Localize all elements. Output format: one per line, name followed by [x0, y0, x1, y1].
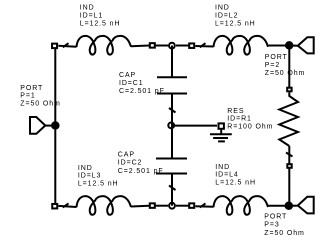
label P3 (PORT, P=3, Z=50 Ohm): [264, 214, 304, 237]
wire: top row from L1 pin2 to node A: [156, 45, 169, 47]
port P2: [292, 37, 314, 53]
node at port P1: [52, 122, 58, 128]
svg-text:Z=50 Ohm: Z=50 Ohm: [264, 230, 304, 237]
svg-text:CAP: CAP: [118, 151, 135, 158]
wire: node C to ground pin: [172, 125, 217, 127]
svg-text:ID=C2: ID=C2: [118, 160, 143, 167]
wire: R1 pin2 down to node N3 with jog: [286, 146, 293, 206]
label P2 (PORT, P=2, Z=50 Ohm): [265, 54, 305, 77]
svg-text:ID=C1: ID=C1: [119, 80, 144, 87]
wire: bottom row from L4 coil to node N3: [268, 205, 286, 207]
svg-text:L=12.5 nH: L=12.5 nH: [80, 20, 121, 27]
svg-text:L=12.5 nH: L=12.5 nH: [215, 20, 256, 27]
svg-text:PORT: PORT: [265, 54, 288, 61]
wire: bottom row from L3 pin2 to node B: [156, 205, 169, 207]
node A (top middle junction): [169, 43, 175, 49]
svg-text:P=3: P=3: [264, 222, 279, 229]
svg-text:CAP: CAP: [119, 72, 136, 79]
label L1 (IND, ID=L1, L=12.5 nH): [80, 5, 121, 28]
wire: node C down to C2 top plate: [171, 126, 173, 159]
svg-text:IND: IND: [78, 165, 93, 172]
svg-text:P=1: P=1: [20, 93, 35, 100]
inductor L4: [189, 196, 268, 215]
wire: C2 bottom plate down to node B with jog: [169, 174, 176, 206]
wire: top row from node A to L2 pin1: [176, 45, 189, 47]
wire: left vertical rail from L1 pin1 down to L3 pin1: [54, 46, 56, 207]
svg-text:C=2.501 pF: C=2.501 pF: [119, 88, 165, 95]
port P1: [30, 117, 53, 134]
svg-text:Z=50 Ohm: Z=50 Ohm: [20, 100, 60, 107]
label L4 (IND, ID=L4, L=12.5 nH): [215, 164, 256, 187]
ground symbol: [210, 123, 232, 141]
inductor L3: [52, 196, 155, 215]
label C2 (CAP, ID=C2, C=2.501 pF): [118, 151, 164, 174]
svg-text:ID=L3: ID=L3: [78, 173, 101, 180]
label L2 (IND, ID=L2, L=12.5 nH): [215, 5, 256, 28]
wire: top row from L2 coil to node N2: [269, 45, 286, 47]
svg-text:R=100 Ohm: R=100 Ohm: [227, 123, 273, 130]
svg-text:IND: IND: [80, 5, 95, 12]
wire: right vertical from node N2 to R1 pin1: [288, 46, 290, 88]
label C1 (CAP, ID=C1, C=2.501 pF): [119, 72, 165, 95]
svg-text:L=12.5 nH: L=12.5 nH: [78, 180, 119, 187]
svg-text:ID=L1: ID=L1: [80, 13, 103, 20]
svg-text:ID=L2: ID=L2: [215, 13, 238, 20]
resistor R1: [279, 88, 298, 168]
inductor L1: [52, 36, 155, 55]
wire: C1 bottom plate down to node C with jog: [169, 94, 176, 126]
svg-text:IND: IND: [215, 5, 230, 12]
node at port P2: [286, 42, 292, 48]
svg-text:C=2.501 pF: C=2.501 pF: [118, 168, 164, 175]
capacitor C2: [156, 159, 187, 174]
svg-text:L=12.5 nH: L=12.5 nH: [215, 179, 256, 186]
inductor L2: [189, 36, 268, 55]
node B (bottom middle junction): [169, 203, 175, 209]
label P1 (PORT, P=1, Z=50 Ohm): [20, 85, 60, 108]
svg-text:ID=L4: ID=L4: [215, 172, 238, 179]
label L3 (IND, ID=L3, L=12.5 nH): [78, 165, 119, 188]
node at port P3: [286, 203, 292, 209]
node C (center junction between C1 and C2): [168, 123, 174, 129]
svg-text:IND: IND: [215, 164, 230, 171]
wire: node A down to C1 plate: [171, 46, 173, 78]
svg-text:PORT: PORT: [20, 85, 43, 92]
svg-text:P=2: P=2: [265, 62, 280, 69]
svg-text:Z=50 Ohm: Z=50 Ohm: [265, 70, 305, 77]
svg-text:PORT: PORT: [264, 214, 287, 221]
port P3: [292, 197, 314, 214]
label R1 (RES, ID=R1, R=100 Ohm): [227, 108, 273, 131]
capacitor C1: [157, 77, 187, 93]
svg-text:ID=R1: ID=R1: [227, 116, 252, 123]
svg-text:RES: RES: [227, 108, 244, 115]
wire: bottom row from node B to L4 pin1: [176, 205, 189, 207]
